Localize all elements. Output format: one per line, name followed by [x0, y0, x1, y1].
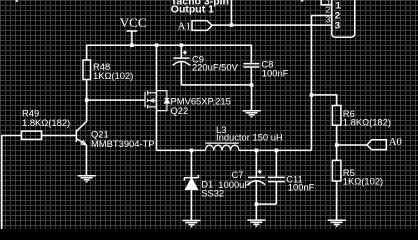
svg-text:100nF: 100nF — [262, 68, 289, 79]
node D1 top — [190, 149, 194, 153]
wire Q21 emitter to ground — [86, 145, 88, 176]
svg-text:A1: A1 — [178, 21, 191, 33]
ground below R5 — [328, 220, 346, 226]
pin numbers outside connector — [326, 0, 332, 24]
wire output vertical to connector pin 2 — [312, 16, 332, 151]
connector J1 body — [332, 0, 355, 37]
svg-text:1000uF: 1000uF — [218, 179, 250, 190]
node C7 C11 ground — [255, 202, 259, 206]
node Q22 source top — [155, 43, 159, 47]
node C11 top — [275, 149, 279, 153]
wire Q22 source-drain vertical — [156, 45, 158, 151]
port A0 — [367, 140, 387, 150]
wire R6 to R5 — [336, 125, 338, 160]
wire top rail VCC net — [87, 44, 252, 46]
wire R6 branch from output — [312, 95, 337, 106]
svg-text:Q22: Q22 — [171, 105, 189, 116]
svg-text:3: 3 — [326, 14, 331, 24]
wire R5 to ground — [336, 181, 338, 220]
svg-text:Inductor 150 uH: Inductor 150 uH — [216, 132, 283, 143]
port A1 — [192, 21, 212, 31]
resistor R49 — [22, 131, 42, 139]
resistor R6 — [332, 106, 341, 126]
svg-text:A0: A0 — [389, 137, 402, 148]
node VCC stem — [130, 43, 134, 47]
capacitor C9 220uF/50V — [173, 45, 190, 85]
capacitor C7 1000uF — [248, 150, 265, 204]
svg-text:Output 1: Output 1 — [171, 4, 214, 16]
wire R48 bottom to Q21 collector node — [86, 80, 88, 122]
node A1 junction — [230, 23, 234, 27]
svg-text:1KΩ(102): 1KΩ(102) — [93, 70, 133, 81]
node cap bottom rail — [250, 83, 254, 87]
svg-text:1.8KΩ(182): 1.8KΩ(182) — [343, 117, 391, 128]
diode D1 SS32 — [184, 150, 198, 220]
pin names inside connector — [335, 0, 342, 31]
wire stray top-mid — [301, 0, 304, 2]
wire capacitor bottom rail — [181, 84, 251, 86]
svg-text:1.8KΩ(182): 1.8KΩ(182) — [22, 117, 70, 128]
wire Q21 base — [42, 135, 77, 137]
label texts — [22, 53, 391, 198]
svg-text:VCC: VCC — [120, 15, 147, 30]
capacitor C8 100nF — [243, 45, 259, 85]
svg-text:MMBT3904-TP: MMBT3904-TP — [91, 138, 155, 149]
wire L3 to output node — [239, 149, 312, 151]
wire stray top-left — [16, 0, 19, 2]
wire Q21 emitter ground symbol — [78, 176, 96, 182]
transistor Q21 — [76, 121, 86, 145]
power VCC symbol — [127, 31, 138, 45]
wire R49 left lead — [2, 136, 22, 230]
node gate junction — [85, 98, 89, 102]
wire A1 port to connector pin 3 — [212, 24, 332, 26]
node C7 top — [255, 149, 259, 153]
svg-text:3: 3 — [335, 20, 340, 31]
wire A1 net stub to top edge — [231, 0, 233, 25]
wire connector pin 1 stub — [321, 0, 332, 5]
node output R6 branch — [310, 93, 314, 97]
wire C7 ground stem — [255, 204, 257, 220]
resistor R5 — [332, 160, 341, 181]
wire R48 top lead — [86, 45, 88, 60]
capacitor C11 100nF — [268, 150, 285, 204]
svg-text:220uF/50V: 220uF/50V — [192, 62, 239, 73]
svg-text:100nF: 100nF — [288, 182, 315, 193]
transistor Q22 P-MOSFET — [145, 91, 170, 111]
ground below C7 — [247, 220, 265, 226]
node A0 tap — [335, 143, 339, 147]
ground below D1 — [183, 221, 201, 227]
wire C8 ground stem — [251, 85, 253, 111]
wire A0 tap — [337, 144, 367, 146]
svg-text:2: 2 — [326, 5, 331, 15]
wire drain to L3 — [157, 149, 206, 151]
node C9 top — [180, 43, 184, 47]
resistor R48 — [83, 60, 91, 80]
wire C11 bottom to C7 ground node — [256, 203, 276, 205]
wire gate net to Q22 — [87, 99, 145, 101]
ground below C8 — [243, 111, 261, 117]
svg-text:1KΩ(102): 1KΩ(102) — [343, 176, 383, 187]
inductor L3 — [205, 143, 239, 150]
